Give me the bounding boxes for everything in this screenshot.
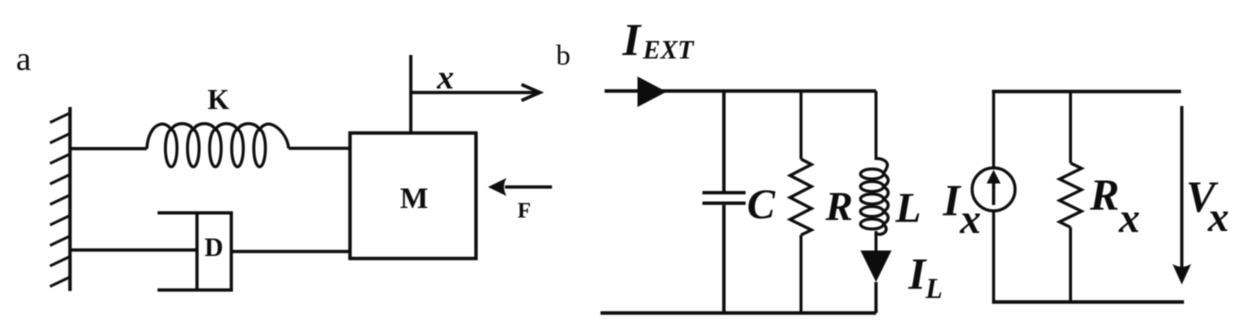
svg-text:C: C (747, 183, 776, 229)
label R_x (1089, 171, 1140, 243)
mass M box (350, 133, 476, 259)
svg-text:R: R (825, 183, 853, 229)
arrow V_x (1173, 106, 1192, 285)
resistor R (790, 91, 812, 313)
resistor R_x (1060, 92, 1082, 303)
label I_EXT (622, 14, 695, 65)
label I_x (942, 176, 981, 243)
svg-text:x: x (1207, 195, 1229, 241)
svg-text:M: M (400, 182, 428, 215)
arrow x (411, 85, 540, 101)
svg-text:L: L (895, 186, 922, 232)
right circuit bottom wire (992, 300, 1184, 303)
spring K (147, 124, 289, 167)
bottom wire left circuit (601, 311, 877, 315)
svg-text:a: a (16, 41, 31, 78)
svg-text:D: D (205, 233, 224, 262)
wire damper to mass (231, 250, 350, 253)
label V_x (1186, 173, 1229, 242)
svg-text:x: x (1118, 196, 1140, 242)
inductor L (861, 91, 889, 251)
damper D (158, 212, 233, 292)
svg-text:F: F (518, 198, 531, 223)
svg-text:b: b (556, 40, 571, 72)
capacitor C (702, 91, 745, 313)
svg-text:I: I (908, 250, 928, 299)
wire wall to damper rod (70, 248, 197, 251)
arrowhead I_EXT (638, 77, 667, 108)
wire wall to spring (70, 147, 147, 150)
arrow F (488, 178, 552, 196)
label I_L (908, 250, 943, 306)
arrow I_L (861, 251, 892, 283)
svg-text:I: I (622, 14, 643, 65)
current source I_x (972, 90, 1015, 302)
wire stub above mass (409, 55, 412, 133)
top wire left circuit (605, 89, 876, 93)
svg-text:x: x (436, 60, 454, 97)
svg-text:I: I (942, 176, 962, 225)
svg-text:EXT: EXT (642, 36, 695, 65)
wire spring to mass (289, 147, 350, 150)
svg-text:x: x (959, 197, 981, 243)
svg-text:K: K (208, 85, 230, 116)
wall (50, 107, 70, 291)
svg-text:L: L (925, 274, 943, 305)
svg-text:R: R (1089, 171, 1119, 220)
right circuit top wire (992, 90, 1181, 93)
